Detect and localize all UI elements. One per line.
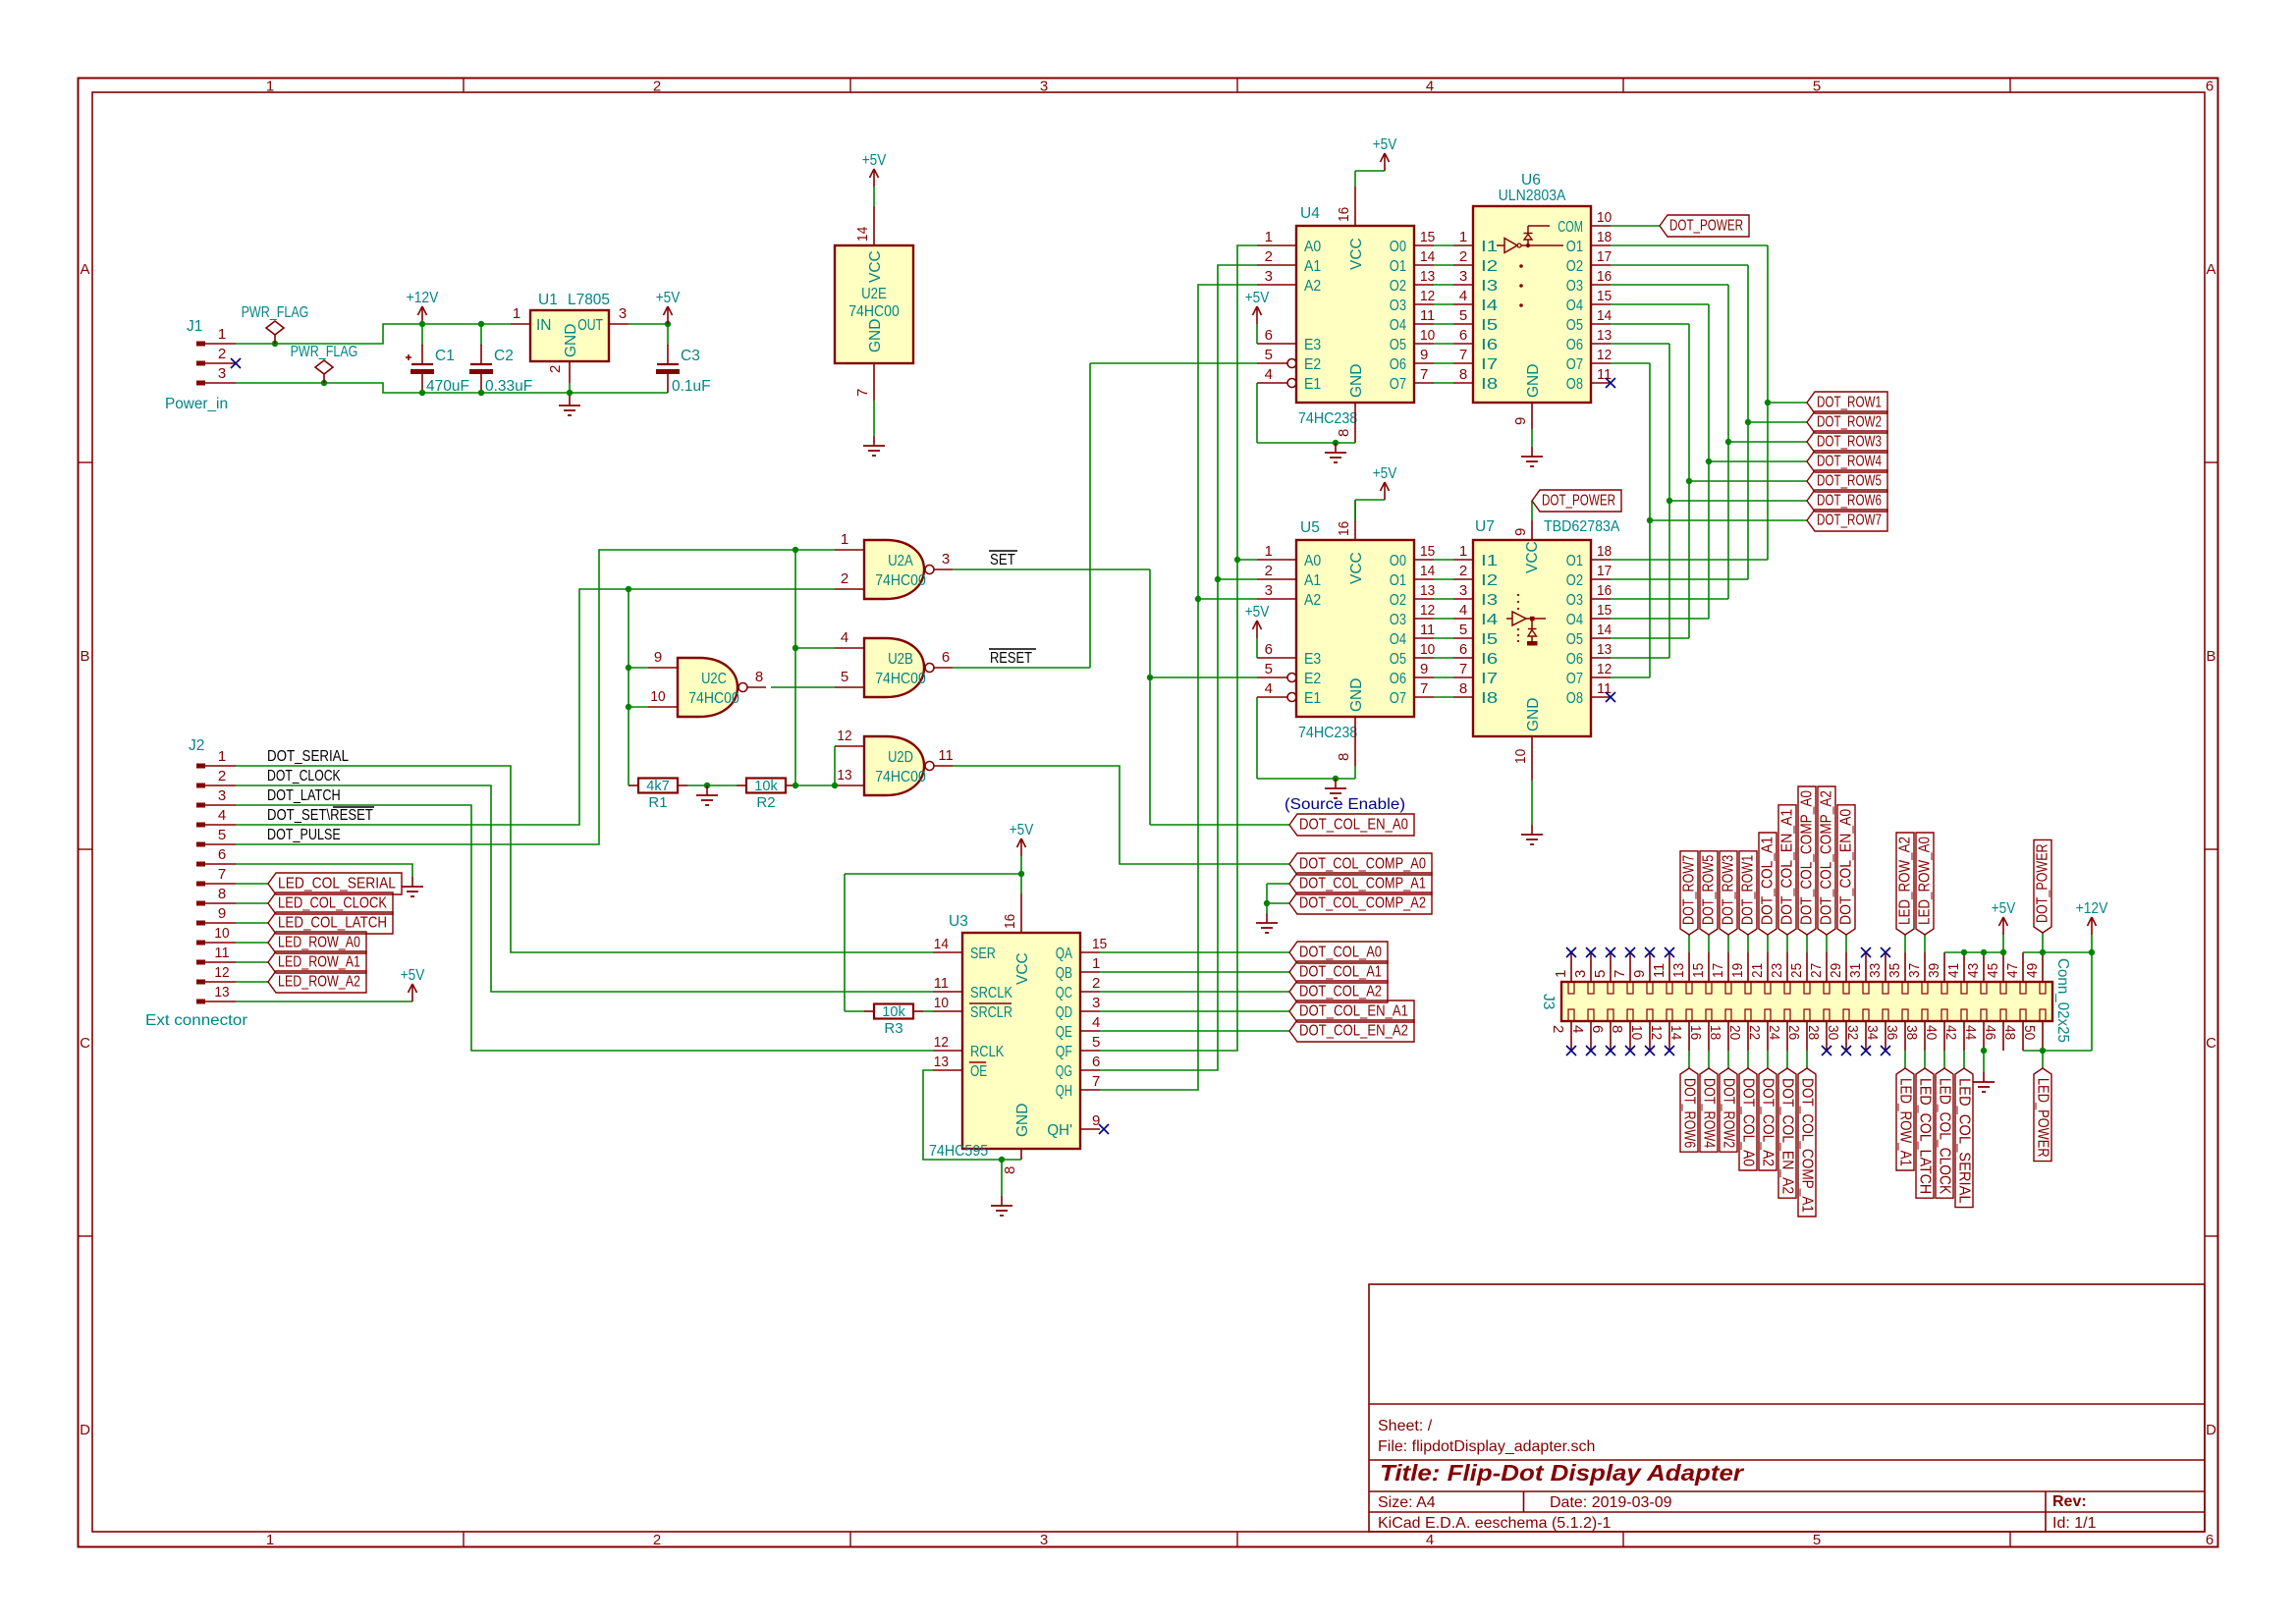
- wire U3.VCC to +5V and R3: [845, 856, 1021, 1011]
- svg-text:+5V: +5V: [1992, 900, 2016, 917]
- nand gate U2A: [835, 531, 953, 599]
- svg-text:Id: 1/1: Id: 1/1: [2052, 1515, 2097, 1532]
- svg-text:13: 13: [1420, 582, 1435, 599]
- wire SET net U2A.3 to U5.E2 and DOT_COL_EN_A0: [953, 569, 1289, 825]
- svg-text:LED_ROW_A0: LED_ROW_A0: [1917, 837, 1934, 925]
- wire DOT_PULSE net to U2A.1 U2B.4 U2D.13 R2: [236, 550, 835, 844]
- svg-text:+5V: +5V: [1245, 604, 1270, 621]
- wire J3.18: [1727, 1051, 1729, 1068]
- svg-text:45: 45: [1985, 963, 2001, 978]
- svg-text:16: 16: [1597, 268, 1612, 285]
- svg-text:DOT_ROW3: DOT_ROW3: [1817, 434, 1882, 451]
- svg-text:O1: O1: [1390, 572, 1406, 589]
- svg-text:17: 17: [1597, 563, 1612, 579]
- svg-text:Size: A4: Size: A4: [1378, 1494, 1436, 1511]
- svg-text:16: 16: [1002, 914, 1018, 929]
- svg-text:74HC238: 74HC238: [1298, 725, 1357, 741]
- wire U2D.11 to DOT_COL_COMP_A0: [953, 766, 1289, 864]
- svg-text:Sheet: /: Sheet: /: [1378, 1418, 1433, 1434]
- svg-text:I1: I1: [1481, 239, 1498, 255]
- svg-text:74HC00: 74HC00: [688, 690, 739, 707]
- svg-text:DOT_ROW7: DOT_ROW7: [1817, 513, 1882, 529]
- svg-text:34: 34: [1864, 1025, 1881, 1040]
- svg-text:SRCLR: SRCLR: [970, 1004, 1012, 1021]
- nand gate U2B: [835, 629, 953, 697]
- junction: [1765, 400, 1771, 406]
- IC U4 74HC238 row decoder: [1257, 187, 1435, 443]
- svg-text:+5V: +5V: [656, 290, 681, 306]
- svg-text:E1: E1: [1304, 376, 1321, 393]
- svg-text:10: 10: [1420, 327, 1435, 344]
- svg-text:3: 3: [218, 787, 226, 804]
- svg-text:Ext connector: Ext connector: [145, 1012, 247, 1029]
- hier label DOT_COL_EN_A2: [1778, 1068, 1796, 1198]
- junction: [419, 390, 573, 396]
- svg-text:DOT_COL_COMP_A2: DOT_COL_COMP_A2: [1819, 790, 1835, 925]
- wire U4.E3 to +5V: [1256, 324, 1258, 344]
- svg-text:(Source Enable): (Source Enable): [1285, 796, 1405, 813]
- svg-text:U2B: U2B: [888, 651, 913, 668]
- hier label LED_POWER: [2034, 1068, 2051, 1162]
- svg-text:LED_ROW_A2: LED_ROW_A2: [1897, 837, 1914, 925]
- junction: [626, 586, 631, 710]
- wire A1 net U3.QG to U5.A1 U4.A1: [1100, 265, 1257, 1070]
- svg-text:I3: I3: [1481, 278, 1498, 295]
- svg-text:E1: E1: [1304, 690, 1321, 707]
- svg-text:O5: O5: [1566, 631, 1583, 648]
- IC U7 TBD62783A source driver: [1453, 518, 1620, 781]
- svg-text:19: 19: [1729, 963, 1746, 978]
- svg-text:10k: 10k: [754, 778, 778, 794]
- svg-text:11: 11: [214, 945, 229, 961]
- svg-text:16: 16: [1336, 207, 1352, 222]
- svg-text:E2: E2: [1304, 356, 1321, 373]
- hier label DOT_ROW4: [1700, 1068, 1718, 1152]
- svg-text:29: 29: [1828, 963, 1844, 978]
- svg-text:6: 6: [942, 649, 950, 666]
- svg-text:C3: C3: [681, 348, 700, 364]
- svg-text:74HC00: 74HC00: [875, 671, 926, 687]
- svg-text:3: 3: [1459, 268, 1467, 285]
- junction: [793, 547, 838, 788]
- svg-text:42: 42: [1942, 1025, 1959, 1040]
- svg-text:26: 26: [1785, 1025, 1802, 1040]
- wire RESET net U2B.6 to U4.E2: [953, 363, 1257, 668]
- svg-text:DOT_ROW6: DOT_ROW6: [1817, 493, 1882, 510]
- svg-text:O7: O7: [1390, 376, 1406, 393]
- hier label LED_ROW_A0: [268, 932, 366, 953]
- svg-text:9: 9: [1512, 528, 1529, 536]
- svg-text:4: 4: [1459, 602, 1467, 619]
- svg-text:8: 8: [755, 669, 763, 685]
- svg-text:13: 13: [837, 767, 851, 784]
- svg-text:4: 4: [218, 807, 226, 824]
- svg-text:7: 7: [1459, 347, 1467, 363]
- svg-text:C: C: [80, 1035, 90, 1052]
- wire U4.E1 and U4.GND to ground: [1257, 383, 1355, 443]
- svg-text:9: 9: [218, 905, 226, 922]
- svg-text:18: 18: [1597, 543, 1612, 560]
- svg-text:47: 47: [2004, 963, 2021, 978]
- svg-text:1: 1: [1265, 543, 1273, 560]
- svg-text:GND: GND: [867, 319, 884, 352]
- svg-text:4: 4: [1426, 1532, 1434, 1548]
- svg-text:I4: I4: [1481, 298, 1499, 314]
- wire J3.37: [1924, 935, 1926, 952]
- svg-text:Date: 2019-03-09: Date: 2019-03-09: [1550, 1494, 1672, 1511]
- wire U5.VCC to +5V: [1355, 500, 1385, 520]
- connector J1: [165, 318, 236, 412]
- wire DOT_LATCH J2.3 to U3.RCLK: [236, 805, 933, 1051]
- nand gate U2C: [648, 649, 766, 717]
- hier label DOT_ROW6: [1807, 490, 1887, 512]
- svg-text:12: 12: [1648, 1025, 1665, 1040]
- svg-text:DOT_COL_COMP_A0: DOT_COL_COMP_A0: [1799, 790, 1816, 925]
- hier label DOT_COL_COMP_A1: [1289, 873, 1432, 894]
- svg-text:IN: IN: [536, 317, 552, 334]
- svg-text:5: 5: [1813, 1532, 1821, 1548]
- svg-text:I2: I2: [1481, 572, 1498, 589]
- svg-text:10: 10: [214, 925, 229, 942]
- power symbol +5V: [401, 967, 425, 1001]
- svg-text:ULN2803A: ULN2803A: [1499, 188, 1566, 204]
- svg-text:I8: I8: [1481, 376, 1498, 393]
- svg-text:LED_COL_LATCH: LED_COL_LATCH: [1917, 1078, 1934, 1194]
- hier label DOT_ROW1: [1807, 392, 1887, 413]
- ground: [1325, 779, 1346, 798]
- svg-text:DOT_ROW4: DOT_ROW4: [1701, 1078, 1718, 1149]
- wire J2.9: [236, 922, 268, 924]
- svg-text:O0: O0: [1390, 239, 1407, 255]
- wire U5 outputs to U7 inputs: [1434, 560, 1453, 697]
- svg-text:7: 7: [1420, 366, 1428, 383]
- power symbol +5V: [1373, 136, 1397, 171]
- svg-text:DOT_COL_A1: DOT_COL_A1: [1760, 837, 1777, 925]
- ground: [696, 785, 718, 805]
- hier label LED_COL_LATCH: [268, 912, 393, 934]
- wire U1.OUT to +5V: [629, 323, 668, 325]
- junction: [1686, 478, 1692, 484]
- power symbol +5V: [1992, 900, 2016, 935]
- wire J3.20: [1747, 1051, 1749, 1068]
- svg-text:2: 2: [653, 79, 661, 95]
- svg-text:14: 14: [1420, 248, 1435, 265]
- wire J3.44 to ground: [1983, 1051, 1985, 1072]
- svg-text:VCC: VCC: [1014, 952, 1031, 985]
- hier label DOT_ROW2: [1720, 1068, 1737, 1152]
- svg-text:U1: U1: [538, 292, 558, 308]
- svg-text:2: 2: [1459, 563, 1467, 579]
- svg-text:O8: O8: [1566, 690, 1583, 707]
- svg-text:I6: I6: [1481, 651, 1498, 668]
- svg-text:10: 10: [1597, 209, 1612, 226]
- svg-text:DOT_SERIAL: DOT_SERIAL: [267, 748, 349, 765]
- svg-text:35: 35: [1886, 963, 1903, 978]
- svg-text:2: 2: [218, 346, 226, 362]
- svg-text:+5V: +5V: [1010, 822, 1034, 839]
- wire U3 output to DOT_COL_A1: [1100, 971, 1289, 973]
- svg-text:+5V: +5V: [1373, 465, 1397, 482]
- wire A2 net U3.QH to U5.A2 U4.A2: [1100, 285, 1257, 1090]
- svg-text:23: 23: [1769, 963, 1785, 978]
- svg-text:5: 5: [1265, 661, 1273, 677]
- net label DOT_PULSE: [267, 827, 341, 843]
- hier label LED_ROW_A1: [268, 951, 366, 973]
- svg-text:DOT_COL_A0: DOT_COL_A0: [1740, 1078, 1757, 1166]
- svg-text:11: 11: [1420, 622, 1435, 638]
- svg-text:SER: SER: [970, 946, 996, 962]
- hier label DOT_COL_COMP_A2: [1818, 786, 1835, 935]
- IC U3 74HC595 shift register: [929, 893, 1107, 1174]
- svg-text:7: 7: [1092, 1073, 1100, 1090]
- wire DOT_ROW3 net U6.O3 U7.O3: [1611, 285, 1807, 599]
- svg-text:VCC: VCC: [1348, 238, 1365, 270]
- hier label DOT_COL_COMP_A1: [1798, 1068, 1816, 1217]
- nand gate U2D: [835, 728, 954, 795]
- wire J3.36: [1904, 1051, 1906, 1068]
- hier label DOT_COL_COMP_A0: [1798, 786, 1816, 935]
- svg-text:10: 10: [934, 995, 949, 1011]
- svg-text:QD: QD: [1056, 1004, 1072, 1021]
- svg-text:GND: GND: [1014, 1104, 1031, 1137]
- svg-text:O1: O1: [1566, 239, 1583, 255]
- svg-text:14: 14: [1420, 563, 1435, 579]
- svg-text:13: 13: [934, 1054, 949, 1070]
- svg-text:13: 13: [1670, 963, 1687, 978]
- wire J3.22: [1767, 1051, 1769, 1068]
- hier label DOT_COL_A2: [1759, 1068, 1777, 1170]
- hier label DOT_COL_A2: [1289, 981, 1388, 1002]
- hier label DOT_COL_EN_A1: [1778, 805, 1796, 935]
- svg-text:O1: O1: [1390, 258, 1406, 275]
- svg-text:GND: GND: [1348, 678, 1365, 712]
- svg-text:QG: QG: [1056, 1063, 1072, 1080]
- svg-text:DOT_ROW2: DOT_ROW2: [1817, 414, 1882, 431]
- hier label DOT_POWER: [1660, 215, 1749, 237]
- wire U4 outputs to U6 inputs: [1434, 245, 1453, 383]
- svg-text:1: 1: [513, 305, 520, 322]
- svg-text:11: 11: [1420, 307, 1435, 324]
- svg-text:B: B: [2206, 648, 2215, 665]
- svg-text:31: 31: [1847, 963, 1864, 978]
- hier label DOT_COL_EN_A1: [1289, 1001, 1414, 1022]
- svg-text:1: 1: [1553, 970, 1569, 978]
- svg-text:I7: I7: [1481, 356, 1498, 373]
- junction: [321, 380, 327, 386]
- svg-text:+5V: +5V: [1373, 136, 1397, 153]
- svg-text:14: 14: [934, 936, 949, 952]
- svg-text:4: 4: [841, 629, 848, 646]
- svg-text:2: 2: [1459, 248, 1467, 265]
- svg-text:4: 4: [1569, 1025, 1586, 1033]
- hier label DOT_COL_EN_A0: [1837, 805, 1855, 935]
- svg-text:22: 22: [1746, 1025, 1763, 1040]
- svg-text:13: 13: [1597, 327, 1612, 344]
- svg-text:1: 1: [218, 748, 226, 765]
- wire J3.29: [1845, 935, 1847, 952]
- svg-text:OUT: OUT: [577, 317, 603, 334]
- svg-text:O6: O6: [1566, 337, 1583, 353]
- svg-text:13: 13: [214, 984, 229, 1001]
- wire U2C.8 to U2B.5: [771, 686, 835, 688]
- svg-text:DOT_COL_COMP_A0: DOT_COL_COMP_A0: [1299, 856, 1426, 873]
- svg-text:4: 4: [1265, 366, 1273, 383]
- svg-text:DOT_ROW1: DOT_ROW1: [1817, 395, 1882, 411]
- svg-text:6: 6: [2206, 1532, 2214, 1548]
- svg-text:+5V: +5V: [401, 967, 425, 984]
- net label DOT_LATCH: [267, 787, 341, 804]
- svg-text:13: 13: [1597, 641, 1612, 658]
- resistor R1 4k7: [629, 778, 687, 811]
- svg-text:8: 8: [1336, 429, 1352, 437]
- svg-text:3: 3: [1572, 970, 1589, 978]
- svg-text:DOT_COL_A0: DOT_COL_A0: [1299, 945, 1382, 961]
- regulator U1 L7805: [511, 292, 629, 383]
- svg-text:L7805: L7805: [568, 292, 610, 308]
- junction: [419, 321, 484, 327]
- wire DOT_COL_COMP_A1 to ground: [1267, 884, 1289, 903]
- wire J3.38: [1924, 1051, 1926, 1068]
- hier label LED_COL_SERIAL: [268, 873, 402, 894]
- svg-text:36: 36: [1884, 1025, 1900, 1040]
- svg-text:7: 7: [854, 389, 871, 397]
- svg-text:O7: O7: [1566, 356, 1583, 373]
- svg-text:B: B: [80, 648, 89, 665]
- svg-text:QH: QH: [1056, 1083, 1072, 1100]
- wire U3.OE to GND rail: [923, 1070, 1021, 1160]
- svg-text:49: 49: [2024, 963, 2041, 978]
- svg-text:3: 3: [1092, 995, 1100, 1011]
- net label DOT_CLOCK: [267, 768, 341, 784]
- svg-text:1: 1: [1459, 229, 1467, 245]
- svg-text:28: 28: [1805, 1025, 1822, 1040]
- svg-text:12: 12: [837, 728, 851, 744]
- wire to ground: [1001, 1160, 1003, 1196]
- svg-text:C1: C1: [435, 348, 455, 364]
- svg-text:0.33uF: 0.33uF: [485, 378, 532, 395]
- junction: [1333, 440, 1339, 446]
- wire J1.3 to GND rail: [236, 383, 668, 393]
- power symbol +5V: [1373, 465, 1397, 500]
- svg-text:DOT_POWER: DOT_POWER: [1542, 493, 1615, 510]
- svg-text:48: 48: [2001, 1025, 2018, 1040]
- net label RESET: [989, 649, 1036, 667]
- svg-text:9: 9: [1092, 1112, 1100, 1129]
- svg-text:R2: R2: [756, 794, 775, 811]
- svg-text:A: A: [80, 261, 89, 278]
- svg-text:74HC00: 74HC00: [875, 572, 926, 589]
- svg-text:LED_COL_SERIAL: LED_COL_SERIAL: [1956, 1078, 1973, 1204]
- svg-text:U2A: U2A: [888, 553, 913, 569]
- svg-text:O4: O4: [1566, 612, 1584, 628]
- svg-text:3: 3: [1040, 1532, 1048, 1548]
- svg-text:A2: A2: [1304, 592, 1321, 609]
- svg-text:3: 3: [942, 551, 950, 568]
- svg-text:74HC238: 74HC238: [1298, 410, 1357, 427]
- power symbol +5V: [1245, 290, 1270, 324]
- hier label LED_COL_LATCH: [1916, 1068, 1934, 1198]
- hier label LED_COL_SERIAL: [1955, 1068, 1973, 1208]
- svg-text:2: 2: [841, 570, 848, 587]
- svg-text:74HC00: 74HC00: [875, 769, 926, 785]
- svg-text:12: 12: [1420, 288, 1435, 304]
- svg-text:9: 9: [1420, 347, 1428, 363]
- svg-text:3: 3: [1459, 582, 1467, 599]
- capacitor C3 0.1uF: [656, 324, 711, 395]
- svg-text:2: 2: [1092, 975, 1100, 992]
- svg-text:Rev:: Rev:: [2052, 1493, 2087, 1510]
- no-connect J3 even pins: [1566, 1046, 1890, 1055]
- power symbol +5V: [1010, 822, 1034, 856]
- svg-text:O7: O7: [1390, 690, 1406, 707]
- hier label DOT_ROW4: [1807, 451, 1887, 472]
- svg-text:DOT_COL_EN_A2: DOT_COL_EN_A2: [1779, 1078, 1796, 1194]
- svg-text:16: 16: [1687, 1025, 1704, 1040]
- hier label DOT_ROW3: [1807, 431, 1887, 453]
- svg-text:6: 6: [2206, 79, 2214, 95]
- wire J3.19: [1747, 935, 1749, 952]
- wire U5.E1 and U5.GND to ground: [1257, 697, 1355, 779]
- hier label DOT_COL_A1: [1289, 961, 1388, 983]
- svg-text:VCC: VCC: [1524, 541, 1541, 573]
- svg-text:DOT_COL_COMP_A1: DOT_COL_COMP_A1: [1799, 1078, 1816, 1213]
- svg-text:I4: I4: [1481, 612, 1499, 628]
- svg-text:O5: O5: [1566, 317, 1583, 334]
- svg-text:15: 15: [1597, 602, 1612, 619]
- svg-text:5: 5: [1459, 622, 1467, 638]
- wire DOT_SET/RESET net to U2A.2 and U2C inputs: [236, 589, 835, 825]
- svg-text:GND: GND: [563, 324, 579, 357]
- junction: [1981, 1048, 1987, 1054]
- svg-text:13: 13: [1420, 268, 1435, 285]
- wire U6.GND to ground: [1531, 429, 1533, 447]
- svg-text:20: 20: [1726, 1025, 1743, 1040]
- wire U4.VCC to +5V: [1355, 171, 1385, 187]
- wire DOT_CLOCK J2.2 to U3.SRCLK: [236, 785, 933, 992]
- svg-text:4k7: 4k7: [646, 778, 669, 794]
- wire J3.23: [1786, 935, 1788, 952]
- svg-text:DOT_CLOCK: DOT_CLOCK: [267, 768, 341, 784]
- power symbol +12V: [407, 290, 439, 324]
- connector J3 Conn_02x25: [1540, 952, 2071, 1051]
- svg-text:I7: I7: [1481, 671, 1498, 687]
- svg-text:U7: U7: [1475, 518, 1495, 535]
- note (Source Enable): [1285, 796, 1405, 813]
- svg-text:D: D: [2206, 1422, 2216, 1438]
- svg-text:DOT_ROW3: DOT_ROW3: [1721, 855, 1737, 925]
- power flag PWR_FLAG1: [242, 304, 309, 344]
- wire U3 output to DOT_COL_A0: [1100, 951, 1289, 953]
- hier label DOT_ROW3: [1720, 851, 1737, 935]
- hier label DOT_COL_COMP_A2: [1289, 893, 1432, 914]
- svg-text:50: 50: [2021, 1025, 2038, 1040]
- no-connect J1 pin2: [231, 358, 241, 368]
- svg-text:GND: GND: [1348, 364, 1365, 398]
- svg-text:11: 11: [938, 747, 953, 764]
- svg-text:3: 3: [1265, 268, 1273, 285]
- svg-text:DOT_COL_COMP_A1: DOT_COL_COMP_A1: [1299, 876, 1426, 893]
- svg-text:+12V: +12V: [407, 290, 439, 306]
- svg-text:10: 10: [1628, 1025, 1645, 1040]
- hier label DOT_ROW7: [1680, 851, 1698, 935]
- svg-text:DOT_ROW7: DOT_ROW7: [1681, 855, 1698, 925]
- net label DOT_SERIAL: [267, 748, 349, 765]
- svg-text:DOT_COL_A2: DOT_COL_A2: [1299, 984, 1382, 1001]
- title block: [1369, 1284, 2205, 1532]
- junction: [1647, 517, 1653, 523]
- svg-text:SET: SET: [990, 552, 1015, 568]
- no-connect U3.QH': [1099, 1124, 1109, 1134]
